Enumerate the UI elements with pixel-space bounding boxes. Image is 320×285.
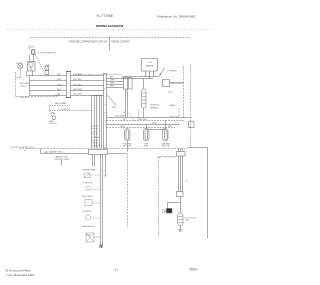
svg-text:BLK WHT GRN YEL ORG: BLK WHT GRN YEL ORG [11, 147, 35, 149]
svg-text:RED-WHT: RED-WHT [138, 119, 148, 121]
svg-text:LT SWITCH: LT SWITCH [82, 182, 93, 184]
svg-text:kk: kk [25, 150, 27, 152]
svg-text:CAP: CAP [162, 211, 167, 214]
svg-text:HTR: HTR [144, 146, 149, 148]
svg-text:THERMOSTAT: THERMOSTAT [82, 168, 96, 171]
svg-text:22 23 24: 22 23 24 [91, 126, 98, 128]
svg-text:ORG: ORG [110, 82, 115, 84]
svg-text:* FREEZER COMPARTMENT CIRCUIT: * FREEZER COMPARTMENT CIRCUIT [68, 41, 108, 44]
svg-text:CAB COMPRESSOR: CAB COMPRESSOR [157, 156, 177, 159]
svg-text:10 11 12: 10 11 12 [91, 134, 98, 136]
svg-text:01 02 03: 01 02 03 [91, 143, 98, 145]
svg-text:18 19 20: 18 19 20 [91, 129, 98, 131]
svg-text:MOTOR: MOTOR [123, 146, 131, 148]
svg-text:ORG: ORG [57, 84, 62, 86]
svg-text:DEFROST: DEFROST [150, 105, 160, 107]
svg-text:LAMP: LAMP [45, 64, 51, 67]
svg-text:WHT: WHT [110, 79, 115, 81]
svg-text:ICE: ICE [148, 62, 152, 64]
svg-text:MOTOR: MOTOR [162, 146, 170, 148]
svg-text:FL-FT-EWE: FL-FT-EWE [97, 14, 114, 18]
svg-text:PL CN 08: PL CN 08 [91, 137, 98, 139]
svg-text:MOTOR: MOTOR [49, 123, 57, 125]
svg-text:Publication No: 5995435892: Publication No: 5995435892 [157, 14, 196, 18]
svg-text:00 0A 0B: 00 0A 0B [91, 144, 99, 147]
svg-text:WIRING DIAGRAM: WIRING DIAGRAM [96, 24, 124, 28]
svg-text:* LT/DOOR SWITCH: * LT/DOOR SWITCH [37, 53, 56, 55]
svg-text:RED-WHT: RED-WHT [73, 89, 83, 91]
svg-text:* Non-Illustrated Parts: * Non-Illustrated Parts [6, 273, 36, 277]
svg-text:GRN-YEL: GRN-YEL [20, 97, 30, 99]
svg-text:ORG: ORG [120, 126, 125, 128]
svg-text:ORG-BLK: ORG-BLK [73, 84, 83, 86]
svg-text:LT GREEN: LT GREEN [167, 71, 177, 73]
svg-text:— TO CABINET GND —: — TO CABINET GND — [43, 150, 65, 153]
svg-text:FRZ LT: FRZ LT [16, 63, 24, 65]
svg-text:wdg: wdg [185, 220, 189, 222]
svg-text:BLK-WHT: BLK-WHT [20, 83, 30, 85]
svg-text:BRN: BRN [152, 122, 157, 124]
svg-text:AIR DUCT: AIR DUCT [55, 102, 65, 105]
svg-text:DRAIN: DRAIN [169, 104, 176, 107]
svg-text:BLK: BLK [110, 76, 114, 78]
svg-text:BLK: BLK [57, 74, 61, 76]
svg-text:LT BLU: LT BLU [20, 86, 27, 88]
svg-text:06/05: 06/05 [189, 267, 197, 271]
svg-text:GND: GND [112, 107, 117, 109]
svg-text:REFRIG COMPART: REFRIG COMPART [111, 41, 130, 44]
svg-text:14 15 16: 14 15 16 [91, 131, 98, 133]
svg-text:DEF TIMER: DEF TIMER [82, 196, 93, 198]
svg-text:BLK: BLK [169, 92, 173, 94]
svg-text:PWR: PWR [86, 235, 91, 237]
svg-text:BLK-WHT: BLK-WHT [73, 74, 83, 76]
svg-text:WHT-BLK: WHT-BLK [73, 79, 83, 81]
svg-text:WATER VALVE: WATER VALVE [170, 82, 184, 85]
svg-text:77: 77 [115, 269, 119, 273]
svg-text:TERM BLOCK: TERM BLOCK [82, 226, 96, 228]
svg-text:C CONTROL: C CONTROL [59, 109, 72, 111]
svg-text:GROUND WIRE: GROUND WIRE [54, 159, 69, 161]
svg-text:MAKER: MAKER [146, 65, 154, 68]
svg-text:WHT: WHT [57, 79, 62, 81]
svg-text:LT SW: LT SW [28, 46, 34, 48]
svg-text:RED: RED [57, 89, 62, 91]
svg-text:RED: RED [110, 85, 115, 87]
svg-text:YEL-GRN: YEL-GRN [73, 94, 82, 96]
svg-text:WHT-BLK: WHT-BLK [115, 115, 125, 117]
svg-text:04 05 06: 04 05 06 [91, 140, 98, 142]
svg-text:CONTROL: CONTROL [82, 211, 93, 213]
svg-text:HEATER: HEATER [150, 106, 159, 109]
